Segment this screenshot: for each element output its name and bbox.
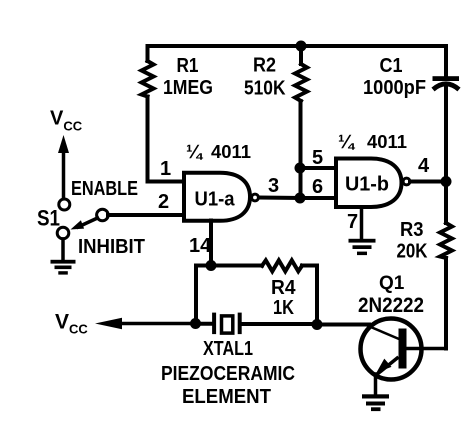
svg-text:2: 2	[158, 191, 169, 213]
svg-text:3: 3	[268, 175, 279, 197]
node pin5 junction	[295, 163, 306, 174]
svg-text:R1: R1	[177, 55, 199, 77]
svg-text:ELEMENT: ELEMENT	[182, 386, 271, 408]
svg-text:R4: R4	[271, 277, 296, 299]
wire top rail	[148, 44, 447, 48]
switch S1 pole contact	[97, 209, 109, 221]
svg-text:PIEZOCERAMIC: PIEZOCERAMIC	[161, 363, 295, 385]
svg-text:4: 4	[418, 155, 430, 177]
ground under Q1	[362, 394, 389, 411]
resistor R4	[211, 260, 317, 324]
node pin6 junction	[295, 193, 306, 204]
wire R1 to pin1	[148, 97, 185, 182]
svg-text:R2: R2	[253, 55, 276, 77]
node junction top (R2/top rail)	[296, 41, 307, 52]
wire S1 pole to pin2	[108, 213, 185, 217]
NAND gate U1-b	[336, 159, 402, 208]
svg-text:R3: R3	[400, 219, 424, 241]
svg-text:Q1: Q1	[379, 273, 405, 294]
svg-text:6: 6	[312, 176, 323, 198]
svg-text:U1-a: U1-a	[195, 189, 236, 211]
wire U1-a out to node	[259, 196, 300, 201]
wire pin5	[300, 166, 336, 170]
wire U1-b out to right rail	[410, 180, 446, 184]
svg-text:C1: C1	[380, 55, 403, 77]
switch S1 inhibit contact	[57, 227, 69, 239]
svg-text:¼4011: ¼4011	[338, 132, 407, 153]
wire base	[317, 323, 369, 327]
svg-text:1000pF: 1000pF	[363, 77, 426, 99]
ground under S1	[51, 239, 76, 275]
wire pin14 down	[209, 221, 213, 266]
switch S1 enable contact	[59, 199, 70, 210]
wire Vcc arrow up	[58, 135, 69, 198]
svg-text:5: 5	[312, 147, 323, 169]
transistor Q1	[361, 319, 447, 380]
svg-text:1MEG: 1MEG	[163, 77, 213, 99]
node junction xtal left	[190, 318, 201, 329]
wire emitter down	[374, 374, 378, 394]
svg-text:20K: 20K	[397, 241, 428, 263]
NAND gate U1-a	[184, 173, 250, 221]
wire C1 drop	[444, 46, 448, 76]
capacitor C1	[433, 76, 460, 182]
resistor R1	[142, 46, 154, 97]
svg-text:1K: 1K	[273, 297, 294, 319]
wire Vcc arrow left	[95, 318, 196, 329]
U1-a output bubble	[252, 194, 259, 201]
U1-b output bubble	[403, 178, 410, 185]
resistor R3	[440, 182, 452, 349]
wire pin6	[300, 196, 336, 200]
wire left branch down	[196, 266, 211, 324]
svg-text:1: 1	[160, 158, 171, 180]
svg-text:S1: S1	[37, 206, 60, 231]
svg-text:XTAL1: XTAL1	[203, 338, 253, 360]
resistor R2	[295, 46, 307, 198]
svg-text:510K: 510K	[244, 78, 286, 100]
node junction right rail	[441, 176, 452, 187]
svg-text:14: 14	[189, 235, 212, 257]
svg-text:2N2222: 2N2222	[358, 294, 424, 317]
svg-text:7: 7	[347, 211, 358, 233]
node junction pin14	[206, 260, 217, 271]
svg-text:ENABLE: ENABLE	[71, 178, 138, 200]
node junction xtal right	[312, 319, 323, 330]
svg-text:INHIBIT: INHIBIT	[78, 236, 145, 258]
svg-text:¼4011: ¼4011	[186, 142, 251, 163]
switch S1 arm	[71, 218, 98, 230]
svg-text:U1-b: U1-b	[345, 174, 389, 196]
ground under pin 7	[349, 207, 376, 255]
crystal XTAL1	[196, 313, 318, 335]
